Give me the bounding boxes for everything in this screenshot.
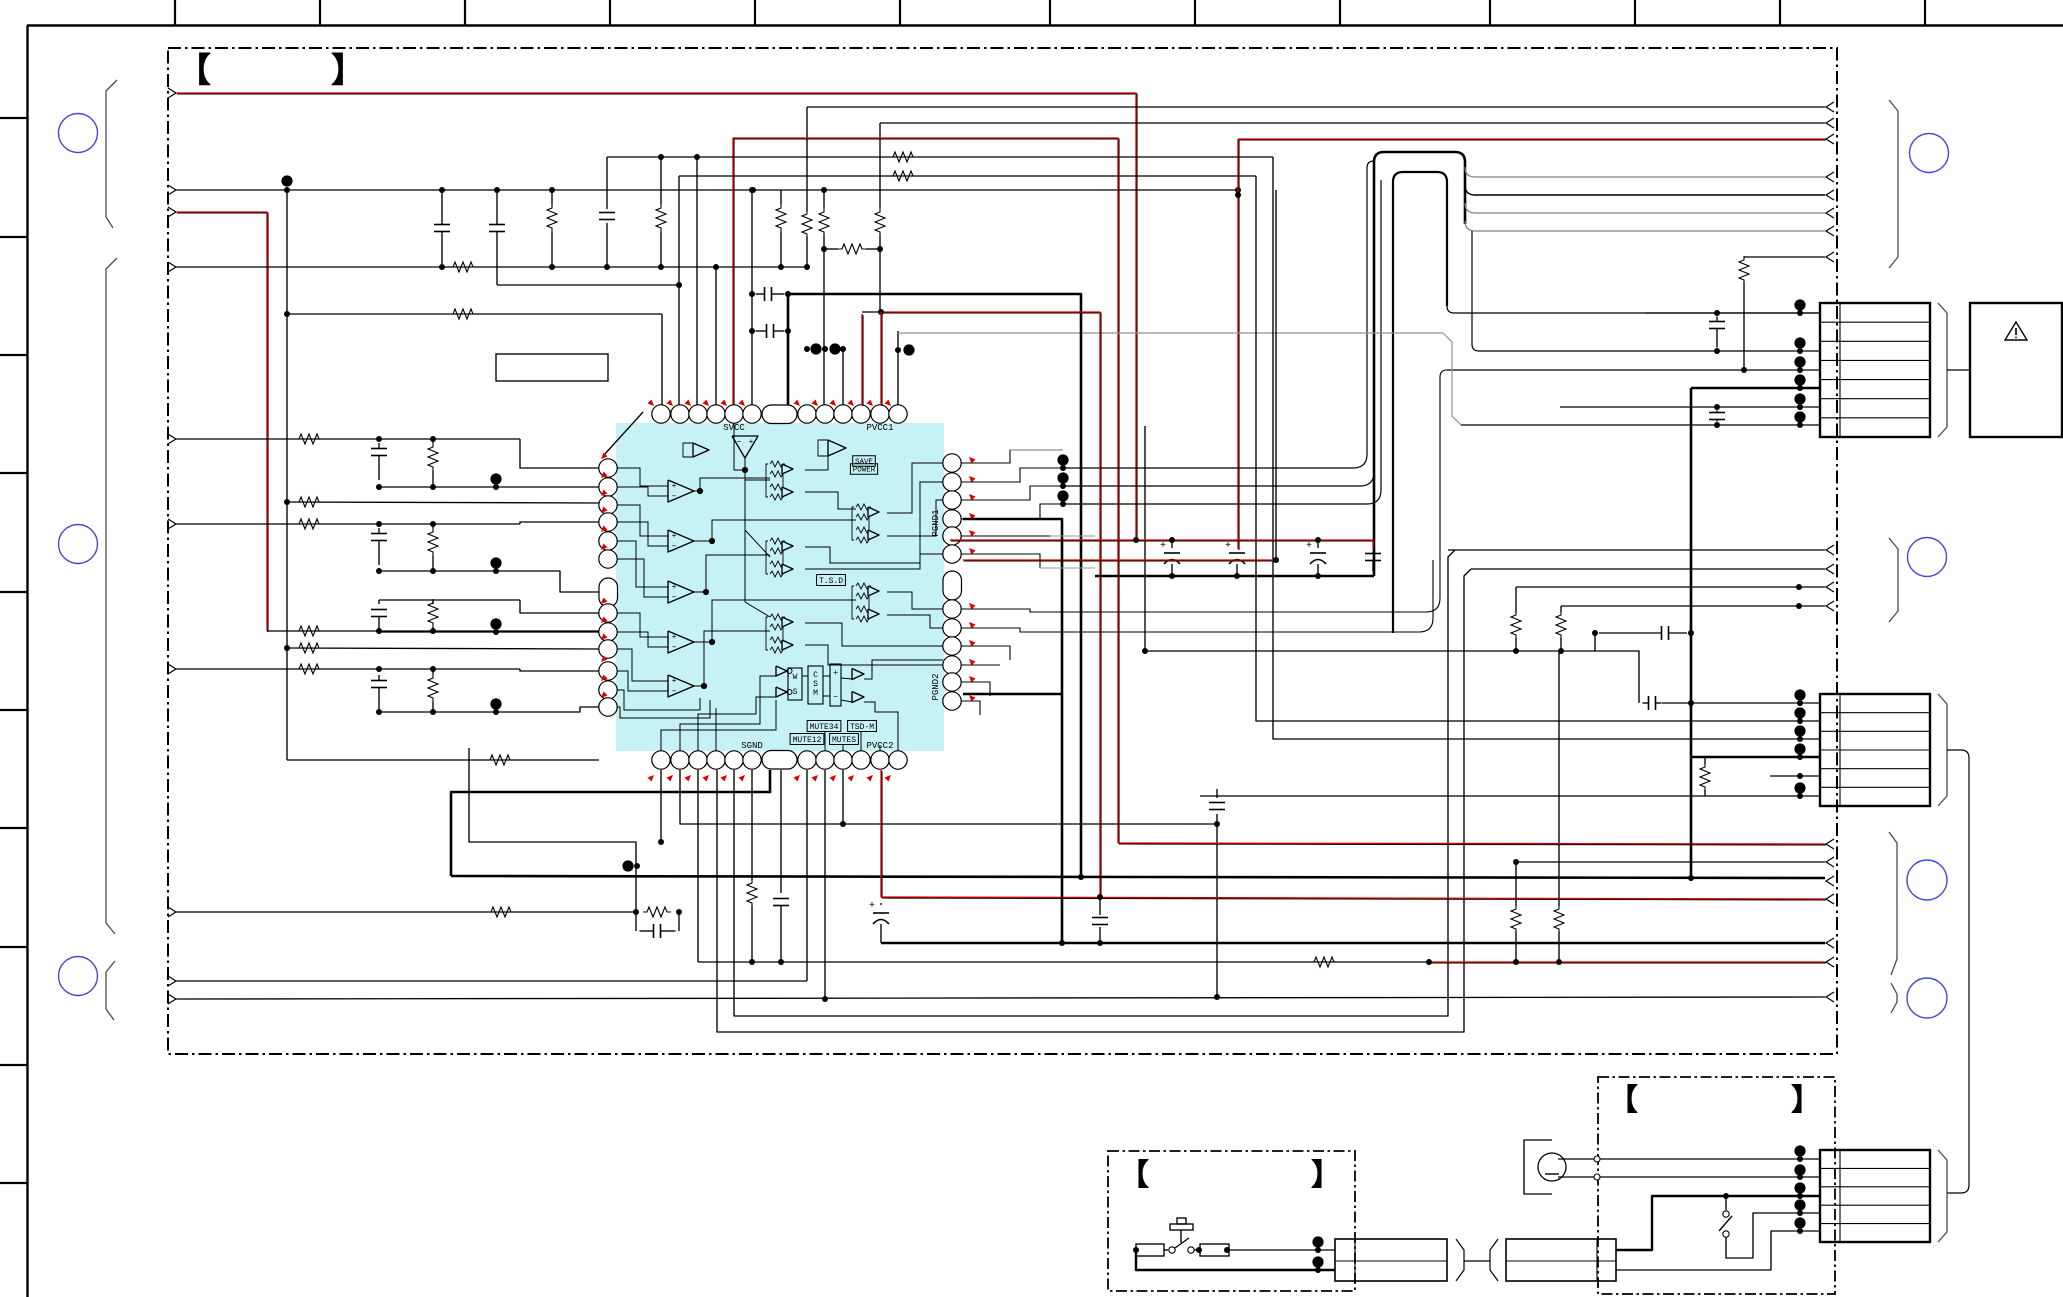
left border tick marks bbox=[0, 117, 28, 119]
vertical x807 with resistor bbox=[806, 107, 808, 211]
connector CN2 pin dots bbox=[1794, 689, 1805, 700]
resistor R-y502 bbox=[295, 497, 323, 507]
svg-text:+: + bbox=[1306, 541, 1312, 552]
connector CN1 body bbox=[1820, 303, 1930, 437]
svg-text:POWER: POWER bbox=[853, 467, 876, 475]
IC output buffers right bbox=[852, 669, 864, 680]
svg-text:−: − bbox=[672, 688, 677, 697]
left signal group bracket C bbox=[106, 961, 115, 1020]
wire mid bus y314 bbox=[287, 313, 662, 315]
thick ground rail y576 mid bbox=[1095, 575, 1374, 578]
RC cluster D rail bbox=[379, 707, 599, 712]
IC save-power comparator bbox=[828, 440, 846, 456]
left signal group bracket A bbox=[106, 80, 117, 228]
RC cluster B rail bbox=[379, 571, 599, 592]
wire y587 to border bbox=[1516, 586, 1825, 588]
capacitor C-t2 bbox=[496, 193, 498, 225]
thick wire CN2 row4 bbox=[1691, 756, 1820, 759]
IC opamp A1 bbox=[668, 480, 694, 502]
input arrow wire 6 bbox=[168, 519, 176, 529]
resistor R-t6 bbox=[875, 208, 885, 236]
lamp symbol bbox=[1538, 1153, 1566, 1181]
wire y157 with resistor bbox=[607, 156, 1273, 158]
red wire y962 to border bbox=[1430, 962, 1826, 964]
RC cluster C top wire bbox=[379, 599, 520, 601]
connector CN2 body bbox=[1820, 694, 1930, 806]
svg-text:】: 】 bbox=[1311, 1159, 1341, 1192]
svg-text:+: + bbox=[672, 677, 677, 686]
IC opamp A5 bbox=[668, 675, 694, 697]
input arrow wire 5 bbox=[168, 434, 176, 444]
blue registration circle right-bottom bbox=[1907, 978, 1947, 1018]
wire vertical x1145 bbox=[1144, 426, 1146, 651]
IC T.S.D label bbox=[817, 575, 846, 586]
RC cluster D caps bbox=[378, 675, 380, 681]
connector CN4 body bbox=[1820, 1150, 1930, 1242]
right signal group bracket R3 bbox=[1889, 832, 1897, 975]
peel-off wire y195 bbox=[1465, 185, 1825, 195]
svg-text:+: + bbox=[672, 482, 677, 491]
IC U1 chamfer line bbox=[604, 412, 643, 455]
capacitor C-m1 bbox=[1592, 630, 1598, 636]
wire from red corner to IC pin row 631 bbox=[267, 630, 599, 632]
svg-text:+: + bbox=[749, 438, 754, 447]
wire pin riser x824 lower bbox=[823, 249, 825, 405]
wire CN2 bracket to CN4 bracket bbox=[1947, 750, 1969, 1193]
wire bottom pin x661 to RC bbox=[469, 748, 636, 912]
main board boundary (dash-dot box) bbox=[168, 48, 1837, 1054]
wire to CN2 row2 bbox=[1256, 176, 1820, 721]
blue registration circle right-top bbox=[1910, 134, 1949, 173]
thick stub pill right bbox=[963, 693, 1062, 696]
thick return loop inner bbox=[1393, 172, 1447, 633]
capacitor C-cn1a bbox=[1714, 310, 1720, 316]
wire 6 to IC pin bbox=[520, 522, 599, 524]
svg-text:MUTE12: MUTE12 bbox=[793, 736, 822, 745]
wire bottom pin x698 drop bbox=[697, 770, 699, 962]
resistor R-in3 bbox=[295, 626, 323, 636]
thick SVCC pill feed bbox=[787, 294, 790, 405]
blue registration circle left-bottom bbox=[59, 957, 98, 996]
inline connector block A bbox=[1335, 1239, 1447, 1281]
connector CN4 pin column divider bbox=[1839, 1150, 1841, 1242]
IC U1 left pin red flags bbox=[601, 453, 608, 460]
wire bottom of bus x287 with resistor bbox=[287, 759, 599, 761]
wire y981 riser to pin 807 bbox=[806, 770, 808, 981]
input arrow wire 10 bbox=[168, 994, 176, 1004]
connector CN1 pin column divider bbox=[1839, 303, 1841, 437]
junction dots on top bus bbox=[281, 175, 292, 186]
wire pin698 feed bbox=[696, 157, 698, 405]
IC TSD-M label bbox=[848, 721, 877, 732]
svg-text:+: + bbox=[1160, 541, 1166, 552]
IC U1 right pin column bbox=[943, 454, 961, 472]
IC U1 body (cyan) bbox=[616, 423, 944, 751]
svg-text:C: C bbox=[813, 671, 818, 680]
svg-text:+: + bbox=[672, 583, 677, 592]
input arrow wire 9 bbox=[168, 976, 176, 986]
svg-text:+: + bbox=[833, 669, 838, 678]
wire y176 with resistor bbox=[679, 175, 1256, 177]
IC output stage B5 bbox=[782, 617, 793, 627]
svg-text:【: 【 bbox=[177, 52, 211, 90]
svg-text:−: − bbox=[833, 693, 838, 702]
connector CN1 rows 6-7 wires bbox=[1560, 406, 1820, 408]
wire y962 with resistor bbox=[698, 961, 1429, 963]
gray wires right group stubs bbox=[1040, 536, 1095, 568]
input arrow wire 7 bbox=[168, 664, 176, 674]
blue registration circle right-upper-middle bbox=[1908, 538, 1947, 577]
connector CN4 mate bracket bbox=[1938, 1150, 1947, 1242]
connector mate symbol bbox=[1456, 1239, 1464, 1281]
svg-text:SGND: SGND bbox=[741, 741, 763, 751]
IC W/S box bbox=[788, 668, 802, 700]
thick rail y943 bbox=[881, 942, 1825, 945]
IC U1 top pin row bbox=[652, 405, 670, 423]
right signal group bracket R1 bbox=[1889, 100, 1898, 268]
resistor R-m1 bbox=[1515, 862, 1517, 906]
RC cluster C rail bbox=[379, 631, 599, 633]
wire y606 to border bbox=[1561, 605, 1825, 607]
blue registration circle left-top bbox=[59, 114, 98, 153]
input arrow wire 3 (red) bbox=[168, 207, 176, 217]
wire to CN2 row3 bbox=[1273, 157, 1820, 739]
peel-off wire y231 (gray) bbox=[1465, 221, 1825, 231]
lamp housing bbox=[1524, 1140, 1552, 1194]
red wire y844 to border bbox=[1119, 844, 1826, 845]
IC SAVE POWER label bbox=[853, 456, 876, 467]
svg-text:+: + bbox=[672, 532, 677, 541]
capacitor C-cn1b bbox=[1714, 404, 1720, 410]
thick wire block B to CN4 row3 bbox=[1616, 1196, 1820, 1250]
svg-text:MUTE34: MUTE34 bbox=[810, 723, 839, 732]
svg-text:TSD-M: TSD-M bbox=[850, 723, 874, 732]
right signal group bracket R2 bbox=[1889, 538, 1898, 622]
red wire PVCC1 riser bbox=[862, 311, 881, 313]
svg-text:T.S.D: T.S.D bbox=[819, 577, 843, 586]
warning box bbox=[1970, 303, 2062, 437]
wire CN2 row6 bbox=[1200, 795, 1820, 797]
right signal group bracket R4 bbox=[1891, 983, 1897, 1013]
svg-text:】: 】 bbox=[331, 52, 365, 90]
resistor R-t1 bbox=[547, 204, 557, 232]
input arrow wire 8 bbox=[168, 907, 176, 917]
empty reference designator box bbox=[496, 354, 608, 381]
red wire y138 (battery feed) bbox=[734, 139, 1119, 844]
RC cluster C caps bbox=[378, 600, 380, 604]
svg-text:−: − bbox=[672, 543, 677, 552]
capacitor C-svcc1 in series bbox=[749, 291, 755, 297]
IC U1 top pin red flags bbox=[648, 400, 655, 407]
wire pin riser x825 bbox=[824, 770, 826, 999]
wire pin drop x843 bbox=[842, 770, 844, 824]
resistor R-y648 bbox=[295, 643, 323, 653]
wire y651 to CN2 row1 bbox=[1516, 651, 1639, 703]
capacitor C-m3 bbox=[1372, 552, 1374, 554]
thick wire right pin y519 to rail bbox=[963, 519, 1062, 943]
top border tick marks bbox=[174, 0, 176, 26]
illumination unit boundary (dash-dot box) bbox=[1598, 1077, 1835, 1294]
wire CN2 row5 stub bbox=[1770, 775, 1820, 777]
red drop x1238 bbox=[1238, 140, 1240, 550]
resistor R-cn2a bbox=[1704, 757, 1706, 764]
resistor R-t5 bbox=[819, 208, 829, 236]
resistor R-t7 horizontal bbox=[838, 244, 866, 254]
wire block B row2 to CN4 row5 bbox=[1616, 1231, 1820, 1270]
IC comparator +/- box bbox=[830, 664, 841, 706]
svg-text:S: S bbox=[793, 688, 798, 697]
svg-text:MUTES: MUTES bbox=[832, 736, 856, 745]
wire inner loop to CN1 row1 bbox=[1447, 306, 1820, 313]
svg-text:−: − bbox=[672, 493, 677, 502]
wire pin1 drop bbox=[661, 314, 663, 405]
IC internal wiring bbox=[617, 423, 943, 751]
junction dots below IC bbox=[622, 860, 633, 871]
svg-text:PGND2: PGND2 bbox=[931, 673, 941, 700]
resistor R-b1 vertical bbox=[751, 770, 753, 880]
wire bottom pin x716 drop bbox=[717, 569, 1471, 1032]
IC opamp A3 bbox=[668, 581, 694, 603]
IC opamp A4 bbox=[668, 631, 694, 653]
input arrow wire 1 (red) bbox=[168, 88, 176, 98]
wire y267 drop to pin 716 bbox=[715, 267, 717, 405]
output wire y569 to right border bbox=[1471, 568, 1825, 570]
thick wire into CN1 row5 bbox=[1691, 387, 1820, 390]
wire bottom pin x680 bus bbox=[680, 770, 1217, 824]
IC output stage B1 bbox=[782, 464, 793, 474]
thick ground rail y876 bbox=[451, 770, 770, 876]
IC MUTE34 label bbox=[807, 721, 841, 732]
wire y176 drop to pin 680 bbox=[678, 176, 680, 405]
resistor R-y314 bbox=[449, 309, 477, 319]
resistor R-in8 bbox=[487, 907, 515, 917]
red wire y139 right segment bbox=[1239, 139, 1826, 141]
gray wire bundle A bbox=[1010, 449, 1063, 451]
wire top-right y123 bbox=[880, 122, 1825, 124]
output wire y550 to right border bbox=[1448, 549, 1825, 551]
input arrow wire 2 bbox=[168, 185, 176, 195]
electrolytic C-e1 bbox=[1171, 540, 1173, 548]
page border top rule bbox=[27, 24, 2063, 26]
svg-text:W: W bbox=[793, 673, 798, 682]
connector CN4 pin dots bbox=[1794, 1145, 1805, 1156]
svg-text:【: 【 bbox=[1119, 1159, 1149, 1192]
parking switch ground return (thick) bbox=[1136, 1250, 1335, 1270]
blue registration circle left-middle bbox=[59, 525, 98, 564]
resistor R-in4 bbox=[449, 262, 477, 272]
IC top buffer with feedback bbox=[693, 443, 709, 457]
junction dot cluster right of IC bbox=[1057, 454, 1068, 465]
svg-text:】: 】 bbox=[1791, 1084, 1821, 1117]
wire bottom pin x734 drop bbox=[734, 550, 1455, 1016]
wire 7 to IC pin bbox=[520, 669, 599, 671]
wire IC right pin row extensions bbox=[961, 370, 1447, 715]
resistor R-t2 bbox=[656, 204, 666, 232]
RC cluster A caps bbox=[378, 443, 380, 449]
wire pin898 riser bbox=[897, 331, 899, 405]
wire row y648 bbox=[287, 648, 599, 649]
IC opamp A2 bbox=[668, 530, 694, 552]
svg-text:S: S bbox=[813, 680, 818, 689]
wire vertical x1276 bbox=[1275, 190, 1277, 560]
svg-text:−: − bbox=[737, 438, 742, 447]
wire top-right y107 bbox=[807, 106, 1825, 108]
warning triangle symbol bbox=[2005, 322, 2027, 340]
junction dots wire 4 bbox=[439, 264, 445, 270]
IC logic buffers bbox=[776, 666, 787, 676]
IC output stage B4 bbox=[868, 586, 879, 596]
lamp wires with terminals bbox=[1558, 1158, 1820, 1160]
vertical bus x287 bbox=[286, 190, 288, 760]
capacitor C-x607 bbox=[606, 157, 608, 209]
svg-text:【: 【 bbox=[1608, 1084, 1638, 1117]
wire x880 down to red junction bbox=[879, 249, 881, 312]
capacitor C-cn2row1 series bbox=[1643, 702, 1649, 704]
IC CSM box bbox=[808, 666, 823, 704]
connector CN1 pin wires bbox=[1645, 312, 1820, 314]
switch wire dots bbox=[1312, 1236, 1323, 1247]
resistor R-m4 bbox=[1560, 606, 1562, 612]
RC parallel pair on wire 8 bbox=[643, 907, 671, 917]
thick vertical x1691 bbox=[1690, 388, 1693, 878]
loop riser arcs from output wires bbox=[1062, 161, 1374, 468]
gray wire to CN1 row7 bbox=[898, 333, 1461, 425]
inline connector block B bbox=[1506, 1239, 1616, 1281]
wire pin x752 drop bbox=[751, 190, 753, 405]
thick return loop outer bbox=[1374, 152, 1465, 576]
wire y257 with resistor to border bbox=[1743, 283, 1745, 370]
wire pin stub x843 bbox=[842, 349, 844, 405]
IC output stage B3 bbox=[782, 541, 793, 551]
svg-text:SAVE: SAVE bbox=[855, 459, 874, 467]
IC MUTES label bbox=[830, 734, 859, 745]
wire bus y285 bbox=[497, 284, 679, 286]
capacitor C-t1 bbox=[441, 193, 443, 225]
wire CN1 to warning box bbox=[1947, 369, 1970, 371]
resistor R-t3 bbox=[776, 204, 786, 232]
blue registration circle right-lower-middle bbox=[1907, 860, 1947, 900]
dash switch wire to CN4 row4 bbox=[1726, 1213, 1820, 1258]
resistor R-m2 bbox=[1558, 651, 1560, 906]
page border left rule bbox=[26, 26, 28, 1297]
RC cluster A rail bbox=[379, 486, 599, 488]
IC U1 right pin red flags bbox=[969, 457, 976, 464]
wire y550 continuation bbox=[1454, 549, 1456, 551]
capacitor C-b1 vertical bbox=[780, 770, 782, 893]
svg-text:−: − bbox=[672, 594, 677, 603]
svg-text:−: − bbox=[672, 644, 677, 653]
resistor R-m3 bbox=[1515, 587, 1517, 612]
IC output stage B2 bbox=[868, 507, 879, 517]
svg-text:M: M bbox=[813, 689, 818, 698]
connector CN2 mate bracket bbox=[1938, 694, 1947, 806]
svg-text:+: + bbox=[869, 901, 875, 912]
IC U1 bottom pin red flags bbox=[648, 775, 655, 782]
red wire y560 from pin bbox=[964, 560, 1277, 562]
wire x1217 drop bbox=[1216, 789, 1218, 798]
svg-text:+: + bbox=[1225, 541, 1231, 552]
wire y862 stub bbox=[1516, 861, 1825, 863]
IC MUTE12 label bbox=[790, 734, 824, 745]
RC cluster B caps bbox=[378, 528, 380, 534]
capacitor C-svcc2 bbox=[749, 328, 755, 334]
red wire PVCC2 to border bbox=[881, 771, 883, 898]
svg-text:+: + bbox=[672, 633, 677, 642]
dash switch bbox=[1725, 1196, 1727, 1210]
parking brake switch bbox=[1136, 1244, 1164, 1256]
red wire y540 rail bbox=[951, 541, 1374, 550]
junction dots near top pins bbox=[804, 346, 810, 352]
IC U1 bottom pin row bbox=[652, 751, 670, 769]
IC ramp comparator (down triangle) bbox=[732, 436, 758, 458]
peel-off wire y177 (gray) bbox=[1465, 167, 1825, 177]
wire 5 to IC pin bbox=[520, 439, 599, 468]
thick bus y294 to x1081 bbox=[788, 294, 1081, 877]
peel-off wire y213 (gray) bbox=[1465, 203, 1825, 213]
input arrow wire 4 bbox=[168, 262, 176, 272]
svg-text:PVCC1: PVCC1 bbox=[866, 423, 893, 433]
capacitor C-b2 bbox=[1099, 897, 1101, 915]
left signal group bracket B bbox=[106, 258, 117, 934]
IC U1 left pin column bbox=[599, 459, 617, 477]
switch unit boundary (dash-dot box) bbox=[1108, 1151, 1355, 1291]
connector CN1 mate bracket bbox=[1938, 303, 1947, 437]
connector CN2 pin column divider bbox=[1839, 694, 1841, 806]
wire row y502 bbox=[287, 502, 599, 503]
